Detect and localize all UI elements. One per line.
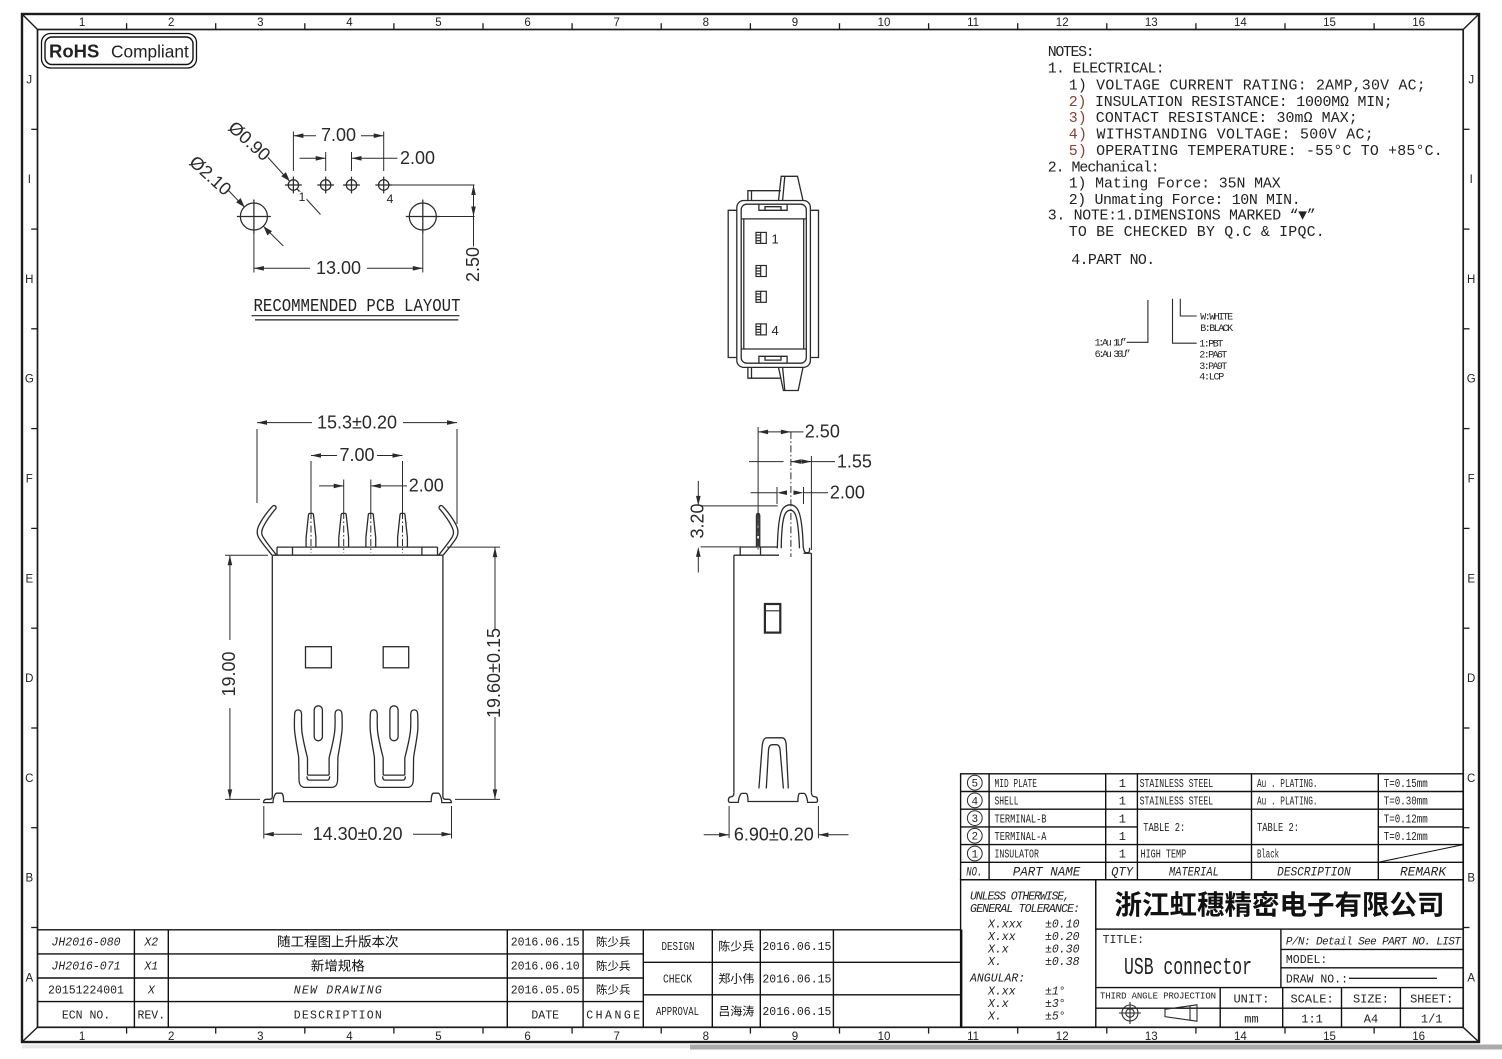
svg-text:1.55: 1.55 (837, 451, 872, 471)
svg-text:X2: X2 (143, 937, 158, 950)
svg-text:2016.06.15: 2016.06.15 (511, 937, 580, 950)
svg-text:H: H (1467, 274, 1475, 286)
svg-text:5: 5 (435, 17, 441, 29)
svg-text:X.xx: X.xx (987, 931, 1016, 944)
svg-text:X1: X1 (143, 961, 158, 974)
svg-text:3. NOTE:1.DIMENSIONS MARKED “▼: 3. NOTE:1.DIMENSIONS MARKED “▼” (1048, 209, 1316, 225)
svg-text:2.50: 2.50 (463, 247, 483, 282)
svg-text:2: 2 (168, 1031, 174, 1043)
pcb arrowheads (293, 133, 303, 138)
svg-text:5: 5 (971, 779, 978, 791)
svg-text:1: 1 (1119, 777, 1126, 791)
svg-text:19.60±0.15: 19.60±0.15 (484, 628, 504, 718)
svg-text:DATE: DATE (531, 1009, 559, 1022)
top left tab (748, 191, 781, 201)
svg-text:13.00: 13.00 (316, 258, 361, 278)
svg-text:±1°: ±1° (1045, 986, 1066, 999)
svg-text:1:Au 1U”: 1:Au 1U” (1095, 338, 1127, 350)
top view pins (756, 232, 766, 335)
svg-text:X: X (147, 984, 156, 997)
svg-text:UNIT:: UNIT: (1233, 993, 1269, 1007)
svg-text:DESIGN: DESIGN (662, 941, 695, 954)
svg-text:X.x: X.x (987, 944, 1009, 957)
svg-text:Au . PLATING.: Au . PLATING. (1257, 795, 1318, 809)
svg-text:CHECK: CHECK (663, 974, 692, 987)
svg-text:Compliant: Compliant (111, 42, 189, 62)
mount hole right (409, 203, 436, 230)
svg-text:UNLESS OTHERWISE,: UNLESS OTHERWISE, (970, 891, 1070, 904)
svg-text:THIRD ANGLE PROJECTION: THIRD ANGLE PROJECTION (1100, 992, 1216, 1002)
svg-text:E: E (25, 573, 33, 585)
shell bottom with feet (264, 793, 452, 802)
svg-text:±0.10: ±0.10 (1045, 919, 1080, 932)
dim 7.00 ext (310, 461, 312, 512)
svg-text:10: 10 (878, 1031, 891, 1043)
svg-text:3: 3 (257, 1031, 263, 1043)
tree line 1 (1127, 300, 1148, 342)
mount hole left (240, 203, 267, 230)
side insulator plate (734, 547, 777, 555)
svg-text:TITLE:: TITLE: (1103, 934, 1144, 947)
mid plate side tabs (728, 210, 737, 357)
svg-text:REV.: REV. (137, 1009, 165, 1022)
svg-text:2:PA6T: 2:PA6T (1199, 351, 1227, 362)
side window (765, 604, 780, 633)
svg-text:4) WITHSTANDING VOLTAGE: 500V: 4) WITHSTANDING VOLTAGE: 500V AC; (1069, 128, 1374, 144)
svg-text:13: 13 (1145, 17, 1158, 29)
svg-text:1: 1 (1119, 795, 1126, 809)
svg-text:J: J (26, 74, 32, 86)
contact spring right (370, 706, 418, 788)
svg-text:T=0.12mm: T=0.12mm (1384, 812, 1428, 826)
svg-text:Au . PLATING.: Au . PLATING. (1257, 777, 1318, 791)
svg-text:1) VOLTAGE CURRENT RATING: 2AM: 1) VOLTAGE CURRENT RATING: 2AMP,30V AC; (1069, 79, 1426, 95)
svg-text:F: F (26, 474, 33, 486)
svg-text:2016.06.15: 2016.06.15 (762, 941, 831, 954)
plated hole 4 (379, 180, 389, 190)
svg-text:2) INSULATION RESISTANCE: 1000: 2) INSULATION RESISTANCE: 1000MΩ MIN; (1069, 95, 1393, 111)
svg-text:3.20: 3.20 (687, 503, 707, 538)
svg-text:±0.30: ±0.30 (1045, 944, 1080, 957)
window hole left (306, 647, 332, 668)
svg-text:mm: mm (1244, 1013, 1258, 1027)
svg-text:B:BLACK: B:BLACK (1200, 324, 1233, 335)
shell outline (737, 201, 811, 368)
svg-text:4:LCP: 4:LCP (1199, 373, 1224, 384)
shell right edge (442, 555, 444, 796)
svg-text:DESCRIPTION: DESCRIPTION (294, 1009, 382, 1022)
svg-text:9: 9 (792, 1031, 798, 1043)
leader 0.90 (268, 158, 290, 182)
bottom scan shadow (690, 1045, 1502, 1050)
dim 3.20 side (697, 481, 699, 499)
svg-text:1: 1 (772, 232, 779, 247)
svg-text:DRAW NO.:: DRAW NO.: (1286, 974, 1348, 987)
side shell right edge (810, 553, 812, 793)
pin centerlines (311, 512, 403, 553)
svg-text:4: 4 (387, 192, 394, 206)
dim 19.00 (225, 554, 268, 556)
top notch (759, 204, 787, 210)
svg-text:TO BE CHECKED BY Q.C & IPQC.: TO BE CHECKED BY Q.C & IPQC. (1069, 225, 1325, 241)
svg-text:1:PBT: 1:PBT (1199, 340, 1223, 351)
svg-text:P/N: Detail See PART NO. LIST: P/N: Detail See PART NO. LIST (1286, 937, 1462, 949)
svg-text:APPROVAL: APPROVAL (656, 1006, 699, 1019)
svg-text:QTY: QTY (1111, 865, 1134, 879)
svg-text:X.xxx: X.xxx (987, 919, 1023, 932)
latch centerline (758, 432, 791, 557)
svg-text:TABLE 2:: TABLE 2: (1257, 821, 1299, 835)
svg-text:±0.20: ±0.20 (1045, 931, 1080, 944)
svg-text:GENERAL TOLERANCE:: GENERAL TOLERANCE: (970, 903, 1080, 916)
svg-text:14: 14 (1234, 1031, 1247, 1043)
latch spring left (257, 506, 272, 555)
svg-text:4: 4 (772, 323, 779, 338)
svg-text:5: 5 (435, 1031, 441, 1043)
svg-text:3: 3 (971, 814, 978, 826)
svg-text:RoHS: RoHS (49, 41, 99, 62)
dim 2.00 pcb (325, 152, 327, 171)
svg-text:X.x: X.x (987, 998, 1009, 1011)
svg-text:±0.38: ±0.38 (1045, 956, 1080, 969)
bottom left tab (748, 368, 781, 378)
terminal pins front (306, 513, 316, 547)
dim 1.55 side (749, 461, 784, 463)
svg-text:STAINLESS STEEL: STAINLESS STEEL (1140, 795, 1214, 809)
bottom notch (759, 356, 787, 363)
svg-text:X.: X. (987, 956, 1002, 969)
svg-text:1. ELECTRICAL:: 1. ELECTRICAL: (1048, 61, 1165, 77)
svg-text:±5°: ±5° (1045, 1011, 1066, 1024)
window hole right (383, 647, 409, 668)
side latch spring (777, 505, 803, 549)
svg-text:SCALE:: SCALE: (1290, 993, 1333, 1007)
svg-text:3:PA9T: 3:PA9T (1199, 362, 1227, 373)
svg-text:2016.06.15: 2016.06.15 (762, 974, 831, 987)
svg-text:TABLE 2:: TABLE 2: (1143, 821, 1185, 835)
svg-text:X.: X. (987, 1011, 1002, 1024)
svg-text:20151224001: 20151224001 (48, 984, 124, 997)
svg-text:A: A (25, 972, 33, 984)
svg-text:3) CONTACT RESISTANCE: 30mΩ MA: 3) CONTACT RESISTANCE: 30mΩ MAX; (1069, 111, 1358, 127)
svg-text:9: 9 (792, 17, 798, 29)
side contact clip (759, 738, 788, 789)
svg-text:D: D (1467, 673, 1475, 685)
svg-text:TERMINAL-B: TERMINAL-B (995, 812, 1047, 826)
svg-text:F: F (1468, 474, 1475, 486)
svg-text:19.00: 19.00 (219, 651, 239, 696)
svg-text:PART NAME: PART NAME (1013, 865, 1081, 879)
svg-text:1/1: 1/1 (1421, 1013, 1443, 1027)
svg-text:RECOMMENDED PCB LAYOUT: RECOMMENDED PCB LAYOUT (254, 297, 461, 317)
tree line 2 (1173, 299, 1197, 344)
side shell left edge (733, 555, 735, 793)
dim 2.00 ext (343, 480, 345, 513)
svg-text:DESCRIPTION: DESCRIPTION (1277, 865, 1351, 879)
svg-text:B: B (1467, 873, 1475, 885)
svg-text:1: 1 (79, 17, 85, 29)
svg-text:±3°: ±3° (1045, 998, 1066, 1011)
insulator top plate (277, 546, 438, 548)
svg-text:1: 1 (79, 1031, 85, 1043)
contact spring left (294, 706, 342, 788)
svg-text:JH2016-080: JH2016-080 (51, 937, 120, 950)
svg-text:STAINLESS STEEL: STAINLESS STEEL (1140, 777, 1214, 791)
latch spring right (439, 505, 458, 555)
svg-text:6: 6 (524, 17, 530, 29)
dim 2.00 side (751, 492, 777, 494)
svg-text:T=0.12mm: T=0.12mm (1384, 830, 1428, 844)
svg-text:6:Au 30U”: 6:Au 30U” (1095, 349, 1131, 361)
svg-text:2016.05.05: 2016.05.05 (511, 984, 580, 997)
svg-text:2: 2 (971, 832, 978, 844)
dim 13.00 pcb (253, 234, 255, 273)
svg-text:8: 8 (703, 1031, 709, 1043)
svg-text:INSULATOR: INSULATOR (995, 848, 1039, 862)
side terminal pin (756, 514, 760, 548)
dim 14.30 (263, 806, 265, 839)
svg-text:1) Mating Force: 35N MAX: 1) Mating Force: 35N MAX (1069, 177, 1281, 193)
RoHS badge (42, 34, 197, 69)
svg-text:2016.06.10: 2016.06.10 (511, 961, 580, 974)
svg-text:12: 12 (1056, 17, 1069, 29)
side bottom feet (728, 793, 817, 803)
svg-text:15.3±0.20: 15.3±0.20 (317, 412, 397, 432)
svg-text:4: 4 (346, 1031, 353, 1043)
svg-text:C: C (25, 773, 33, 785)
svg-text:14: 14 (1234, 17, 1247, 29)
svg-text:NO.: NO. (966, 865, 982, 879)
dim 2.50 side (757, 427, 759, 512)
svg-text:16: 16 (1412, 17, 1425, 29)
svg-text:1: 1 (1119, 830, 1126, 844)
svg-text:2. Mechanical:: 2. Mechanical: (1048, 161, 1160, 177)
svg-text:USB connector: USB connector (1124, 955, 1252, 982)
svg-text:6: 6 (524, 1031, 530, 1043)
dim 2.50 pcb (389, 184, 475, 186)
svg-text:13: 13 (1145, 1031, 1158, 1043)
dim 19.60 (447, 546, 500, 548)
svg-text:MATERIAL: MATERIAL (1169, 865, 1219, 879)
svg-text:2016.06.15: 2016.06.15 (762, 1006, 831, 1019)
svg-text:14.30±0.20: 14.30±0.20 (313, 824, 403, 844)
svg-text:NEW DRAWING: NEW DRAWING (294, 984, 382, 997)
svg-text:A: A (1467, 972, 1475, 984)
svg-text:MID PLATE: MID PLATE (995, 777, 1038, 791)
svg-text:SIZE:: SIZE: (1353, 993, 1389, 1007)
svg-text:X.xx: X.xx (987, 986, 1016, 999)
svg-text:11: 11 (967, 1031, 979, 1043)
svg-text:2.00: 2.00 (400, 148, 435, 168)
svg-text:1: 1 (299, 190, 306, 204)
svg-text:E: E (1467, 573, 1475, 585)
svg-text:5) OPERATING TEMPERATURE: -55°: 5) OPERATING TEMPERATURE: -55°C TO +85°C… (1069, 144, 1443, 160)
svg-text:SHELL: SHELL (995, 795, 1019, 809)
insulator lines (741, 218, 806, 220)
shell left edge (271, 555, 273, 796)
svg-text:16: 16 (1412, 1031, 1425, 1043)
dim 15.3 ext (256, 429, 258, 503)
svg-text:2) Unmating Force: 10N MIN.: 2) Unmating Force: 10N MIN. (1069, 193, 1301, 209)
svg-text:6.90±0.20: 6.90±0.20 (734, 825, 814, 845)
svg-text:T=0.15mm: T=0.15mm (1384, 777, 1428, 791)
bottom latch (779, 367, 804, 390)
svg-text:HIGH TEMP: HIGH TEMP (1141, 848, 1187, 862)
svg-text:NOTES:: NOTES: (1048, 45, 1095, 61)
svg-text:7.00: 7.00 (339, 445, 374, 465)
svg-text:G: G (25, 374, 34, 386)
svg-text:12: 12 (1056, 1031, 1069, 1043)
svg-text:T=0.30mm: T=0.30mm (1384, 795, 1428, 809)
svg-text:J: J (1468, 74, 1474, 86)
svg-text:Black: Black (1257, 848, 1279, 862)
svg-text:7: 7 (613, 17, 619, 29)
svg-text:B: B (25, 873, 33, 885)
svg-text:4: 4 (971, 796, 978, 808)
tree line 3 (1180, 299, 1196, 316)
svg-text:JH2016-071: JH2016-071 (51, 961, 120, 974)
svg-text:MODEL:: MODEL: (1286, 954, 1327, 967)
leader 2.10 (228, 190, 245, 207)
svg-text:1: 1 (1119, 812, 1126, 826)
dim 6.90 side (728, 806, 730, 838)
svg-text:2.50: 2.50 (805, 422, 840, 442)
svg-text:D: D (25, 673, 33, 685)
svg-text:I: I (28, 174, 31, 186)
svg-text:4.PART NO.: 4.PART NO. (1071, 253, 1155, 269)
dim 7.00 pcb (292, 132, 294, 172)
svg-text:I: I (1470, 174, 1473, 186)
svg-text:REMARK: REMARK (1400, 865, 1447, 879)
svg-text:15: 15 (1323, 17, 1336, 29)
svg-text:11: 11 (967, 17, 979, 29)
svg-text:3: 3 (257, 17, 263, 29)
svg-text:ANGULAR:: ANGULAR: (969, 973, 1025, 986)
svg-text:G: G (1467, 374, 1476, 386)
plated hole 3 (346, 180, 356, 190)
svg-text:C: C (1467, 773, 1475, 785)
svg-text:2.00: 2.00 (830, 482, 865, 502)
svg-text:H: H (25, 274, 33, 286)
plated hole 1 (288, 180, 298, 190)
svg-text:10: 10 (878, 17, 891, 29)
svg-text:2: 2 (168, 17, 174, 29)
svg-text:A4: A4 (1364, 1013, 1378, 1027)
svg-text:2.00: 2.00 (409, 476, 444, 496)
svg-text:1: 1 (971, 849, 978, 861)
svg-text:1: 1 (1119, 848, 1126, 862)
svg-text:7: 7 (613, 1031, 619, 1043)
plated hole 2 (321, 180, 331, 190)
svg-text:1:1: 1:1 (1301, 1013, 1323, 1027)
svg-text:ECN NO.: ECN NO. (62, 1009, 110, 1022)
top latch (779, 176, 804, 200)
svg-text:4: 4 (346, 17, 353, 29)
svg-text:W:WHITE: W:WHITE (1200, 313, 1233, 324)
svg-text:15: 15 (1323, 1031, 1336, 1043)
svg-text:SHEET:: SHEET: (1410, 993, 1453, 1007)
svg-text:TERMINAL-A: TERMINAL-A (995, 830, 1048, 844)
svg-text:7.00: 7.00 (321, 125, 356, 145)
svg-text:8: 8 (703, 17, 709, 29)
